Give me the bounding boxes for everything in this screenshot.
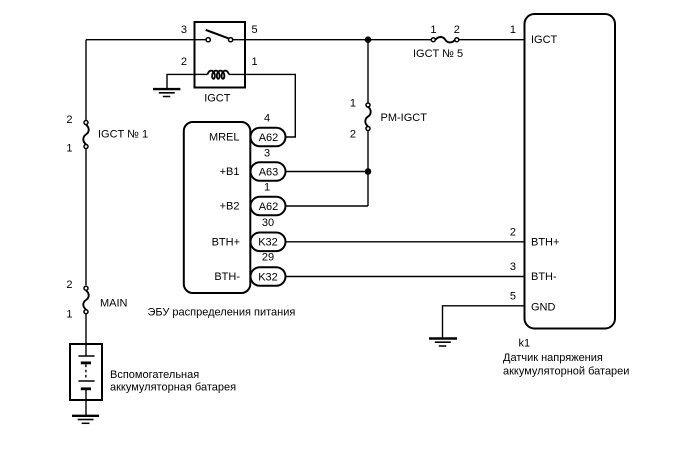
wire BTH+ to k1 <box>286 241 525 243</box>
ground relay <box>153 89 180 96</box>
battery plate long bottom <box>78 380 94 382</box>
svg-text:5: 5 <box>510 290 516 302</box>
wire pin3 horizontal <box>86 39 206 41</box>
svg-text:+B2: +B2 <box>220 201 240 213</box>
battery plate long top <box>78 355 94 357</box>
relay coil lead left <box>195 73 208 75</box>
wire fuse MAIN to battery <box>85 314 87 356</box>
wire +B2 to PM-IGCT <box>286 205 369 207</box>
svg-text:29: 29 <box>262 251 274 263</box>
svg-text:1: 1 <box>252 56 258 68</box>
junction node +B1 <box>365 168 372 175</box>
wire relay pin1 to MREL oval <box>245 74 295 137</box>
relay coil <box>208 71 229 79</box>
wire relay pin2 to ground <box>167 74 195 89</box>
svg-text:2: 2 <box>181 56 187 68</box>
svg-text:BTH-: BTH- <box>214 271 240 283</box>
svg-text:Вспомогательная: Вспомогательная <box>110 369 199 381</box>
wire PM-IGCT vertical top <box>367 40 369 103</box>
svg-text:IGCT: IGCT <box>204 93 231 105</box>
svg-text:2: 2 <box>510 226 516 238</box>
wire left vertical top <box>85 40 87 121</box>
svg-text:1: 1 <box>350 98 356 110</box>
svg-text:+B1: +B1 <box>220 166 240 178</box>
relay switch blade <box>206 30 229 38</box>
connector oval A63 pin 3 <box>251 162 286 181</box>
fuse PM-IGCT <box>365 103 370 131</box>
svg-text:2: 2 <box>350 128 356 140</box>
connector oval K32 pin 29 <box>251 267 286 286</box>
svg-text:1: 1 <box>430 24 436 36</box>
wire fuse IGCT No5 to k1 <box>459 39 524 41</box>
battery plate short bottom <box>81 387 91 390</box>
relay IGCT box <box>195 22 246 88</box>
battery plate short top <box>81 361 91 364</box>
svg-text:K32: K32 <box>258 237 278 249</box>
wire BTH- to k1 <box>286 276 525 278</box>
relay coil lead right <box>229 73 245 75</box>
svg-text:1: 1 <box>66 143 72 155</box>
svg-text:2: 2 <box>66 114 72 126</box>
svg-text:5: 5 <box>252 24 258 36</box>
fuse MAIN <box>83 286 88 314</box>
svg-text:аккумуляторная батарея: аккумуляторная батарея <box>110 382 236 394</box>
svg-text:2: 2 <box>66 279 72 291</box>
svg-text:BTH+: BTH+ <box>531 237 559 249</box>
svg-text:IGCT: IGCT <box>531 34 558 46</box>
junction node pin5/PM-IGCT <box>365 36 372 43</box>
relay switch contact right <box>229 38 233 42</box>
svg-text:k1: k1 <box>519 338 531 350</box>
svg-text:BTH+: BTH+ <box>212 236 240 248</box>
svg-text:аккумуляторной батареи: аккумуляторной батареи <box>503 366 629 378</box>
svg-text:3: 3 <box>510 261 516 273</box>
wire +B1 to PM-IGCT <box>286 171 369 173</box>
svg-text:3: 3 <box>181 24 187 36</box>
wire left vertical middle <box>85 149 87 285</box>
svg-text:1: 1 <box>264 182 270 194</box>
k1 box <box>525 14 616 329</box>
fuse IGCT No5 <box>431 37 459 42</box>
connector oval K32 pin 30 <box>251 233 286 252</box>
svg-text:ЭБУ распределения питания: ЭБУ распределения питания <box>148 306 296 318</box>
battery dashed link <box>85 365 87 381</box>
svg-text:BTH-: BTH- <box>531 271 557 283</box>
wire relay pin5 to fuse IGCT No5 <box>233 39 431 41</box>
svg-text:A63: A63 <box>259 166 279 178</box>
svg-text:Датчик напряжения: Датчик напряжения <box>503 352 603 364</box>
svg-text:MREL: MREL <box>209 132 240 144</box>
relay switch contact left <box>206 38 210 42</box>
fuse IGCT No1 <box>83 121 88 149</box>
wire GND of k1 to ground <box>443 306 525 339</box>
ground k1 <box>429 339 457 347</box>
svg-text:PM-IGCT: PM-IGCT <box>381 112 428 124</box>
wire battery to ground <box>85 389 87 416</box>
svg-text:K32: K32 <box>258 271 278 283</box>
svg-text:GND: GND <box>531 302 556 314</box>
svg-text:IGCT № 1: IGCT № 1 <box>98 129 148 141</box>
battery box <box>70 344 102 400</box>
svg-text:4: 4 <box>264 113 270 125</box>
svg-text:MAIN: MAIN <box>100 298 128 310</box>
svg-text:A62: A62 <box>259 201 279 213</box>
svg-text:1: 1 <box>66 308 72 320</box>
ECU box <box>184 122 251 293</box>
svg-text:30: 30 <box>262 217 274 229</box>
svg-text:A62: A62 <box>259 132 279 144</box>
wire PM-IGCT vertical bottom <box>367 131 369 206</box>
connector oval A62 pin 1 <box>251 197 286 216</box>
svg-text:IGCT № 5: IGCT № 5 <box>413 48 463 60</box>
connector oval A62 pin 4 <box>251 128 286 147</box>
ground battery <box>72 416 99 424</box>
svg-text:2: 2 <box>454 24 460 36</box>
svg-text:1: 1 <box>510 24 516 36</box>
svg-text:3: 3 <box>264 147 270 159</box>
